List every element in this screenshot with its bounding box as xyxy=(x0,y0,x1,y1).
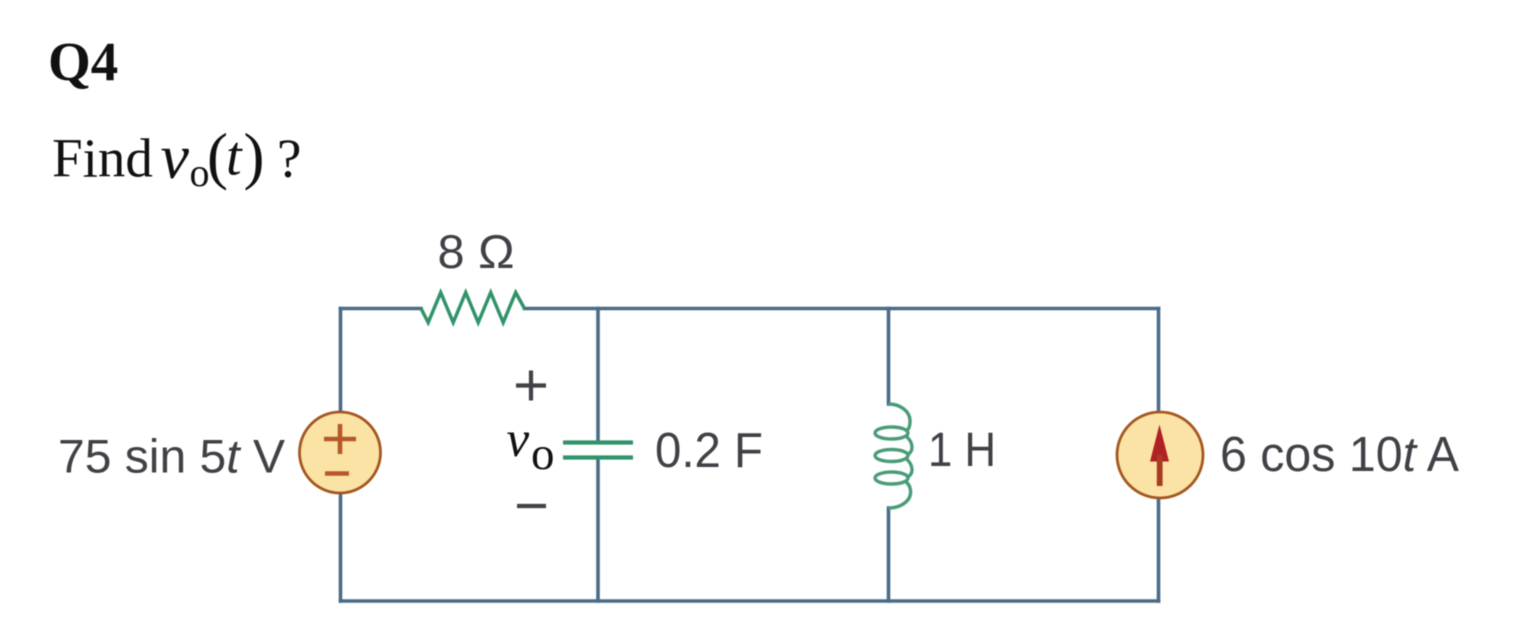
svg-text:0.2 F: 0.2 F xyxy=(655,424,763,478)
svg-text:Findvo(t)?: Findvo(t)? xyxy=(52,121,301,195)
svg-text:Q4: Q4 xyxy=(48,31,118,92)
svg-text:o: o xyxy=(531,428,555,480)
svg-text:1 H: 1 H xyxy=(928,424,996,477)
svg-text:8 Ω: 8 Ω xyxy=(438,225,515,278)
svg-text:v: v xyxy=(507,412,530,468)
svg-text:75 sin 5t V: 75 sin 5t V xyxy=(58,430,286,483)
svg-text:6 cos 10t A: 6 cos 10t A xyxy=(1220,428,1459,482)
